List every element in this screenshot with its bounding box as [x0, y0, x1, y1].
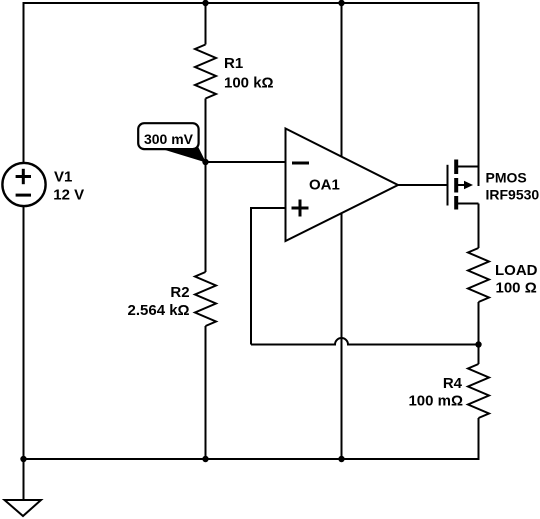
- wire left rail upper: [23, 2, 25, 163]
- ground: [5, 500, 42, 516]
- svg-text:100 mΩ: 100 mΩ: [408, 393, 463, 410]
- resistor R4: [468, 364, 489, 418]
- wire ground stem: [23, 459, 25, 500]
- wire left rail lower: [23, 207, 25, 460]
- svg-text:100 Ω: 100 Ω: [496, 280, 537, 297]
- wire opamp supply rail: [341, 3, 343, 459]
- wire LOAD to R4: [478, 302, 480, 364]
- junction dot top supply branch: [338, 0, 344, 6]
- wire noninverting input feedback: [251, 208, 286, 345]
- svg-text:IRF9530: IRF9530: [486, 187, 540, 203]
- junction dot top R1 branch: [202, 0, 208, 6]
- svg-text:300 mV: 300 mV: [144, 131, 194, 147]
- svg-text:R4: R4: [443, 375, 463, 392]
- wire right rail upper: [478, 2, 480, 167]
- svg-text:OA1: OA1: [309, 177, 340, 194]
- wire R1-R2 middle lead: [205, 99, 207, 273]
- junction dot feedback to load node: [475, 341, 481, 347]
- svg-text:100 kΩ: 100 kΩ: [224, 75, 274, 92]
- op-amp OA1: [286, 129, 399, 242]
- wire inverting input: [206, 161, 286, 163]
- annotation 300 mV callout box: [138, 123, 198, 149]
- node A junction dot (300 mV tap): [202, 159, 208, 165]
- resistor LOAD: [468, 248, 489, 302]
- wire top rail: [24, 2, 479, 4]
- wire drain to LOAD: [478, 204, 480, 249]
- callout pointer wedge: [164, 147, 207, 163]
- svg-text:2.564 kΩ: 2.564 kΩ: [128, 302, 190, 319]
- wire bottom rail: [24, 458, 479, 460]
- svg-text:R2: R2: [170, 284, 189, 301]
- resistor R1: [195, 45, 216, 99]
- svg-text:PMOS: PMOS: [486, 170, 527, 186]
- wire R1 top lead: [205, 3, 207, 45]
- svg-text:R1: R1: [224, 55, 243, 72]
- wire opamp output to gate: [398, 184, 448, 186]
- svg-text:12 V: 12 V: [53, 187, 84, 204]
- transistor Q1 PMOS: [448, 160, 479, 210]
- junction dot bottom R2 branch: [202, 456, 208, 462]
- wire feedback horizontal with hop: [251, 338, 479, 344]
- svg-text:LOAD: LOAD: [495, 262, 538, 279]
- junction dot bottom left: [20, 456, 26, 462]
- voltage source V1: [2, 163, 45, 206]
- wire R4 bottom lead: [478, 418, 480, 460]
- svg-text:V1: V1: [54, 168, 72, 185]
- wire R2 bottom lead: [205, 326, 207, 459]
- resistor R2: [195, 272, 216, 326]
- junction dot bottom supply branch: [338, 456, 344, 462]
